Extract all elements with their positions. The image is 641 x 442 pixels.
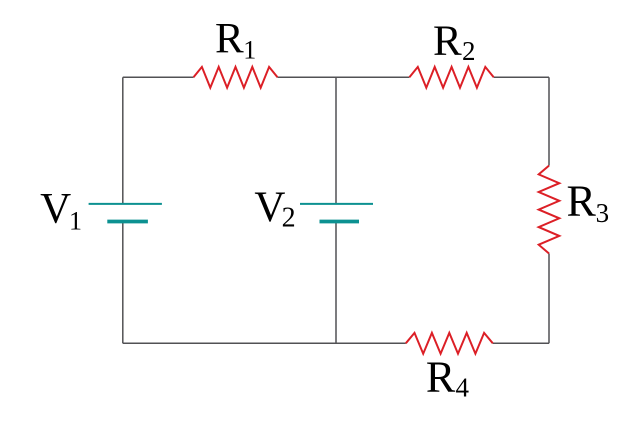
wire: top-right horizontal (R2 to top-right corner) <box>494 76 549 78</box>
wire: left vertical upper (corner down to V1 top plate) <box>122 77 124 204</box>
svg-text:R: R <box>215 16 244 63</box>
svg-text:R: R <box>567 177 597 226</box>
wire: right vertical lower (R3 to bottom-right corner) <box>548 254 550 344</box>
wire: top-left horizontal (node between V1 and R1) <box>123 76 194 78</box>
wire: middle vertical lower (V2 bottom plate to bottom node) <box>335 222 337 344</box>
label V2 <box>254 184 295 233</box>
svg-text:2: 2 <box>282 202 296 233</box>
wire: bottom-right horizontal (R4 to bottom-right corner) <box>493 342 549 344</box>
label R1 <box>215 16 256 65</box>
svg-text:1: 1 <box>69 206 82 235</box>
battery V1 bottom plate (short thick, teal) <box>107 220 148 224</box>
wire: top-middle horizontal (R1 right to R2 left, through middle node) <box>278 76 410 78</box>
label V1 <box>40 186 82 236</box>
label R4 <box>426 352 470 402</box>
svg-text:R: R <box>426 352 456 401</box>
wire: right vertical upper (top-right corner to R3) <box>548 77 550 165</box>
battery V2 top plate (long thin, teal) <box>300 203 373 205</box>
resistor R4 (zigzag, bottom-right branch) <box>406 333 493 354</box>
wire: bottom-left horizontal (bottom-left corner to R4) <box>123 342 406 344</box>
resistor R2 (zigzag, top-right branch) <box>409 67 493 88</box>
svg-text:R: R <box>433 18 462 65</box>
battery V2 bottom plate (short thick, teal) <box>320 220 360 224</box>
svg-text:1: 1 <box>243 36 256 65</box>
resistor R3 (vertical zigzag, right branch) <box>539 166 560 254</box>
battery V1 top plate (long thin, teal) <box>89 203 162 205</box>
resistor R1 (zigzag, top-left branch) <box>194 67 278 88</box>
label R3 <box>567 177 610 228</box>
svg-text:3: 3 <box>596 198 610 228</box>
label R2 <box>433 18 476 66</box>
svg-text:4: 4 <box>456 372 470 402</box>
svg-text:V: V <box>40 186 71 233</box>
svg-text:2: 2 <box>462 36 476 66</box>
wire: middle vertical upper (top node down to V2 top plate) <box>335 77 337 204</box>
wire: left vertical lower (V1 bottom plate to bottom-left corner) <box>122 222 124 344</box>
